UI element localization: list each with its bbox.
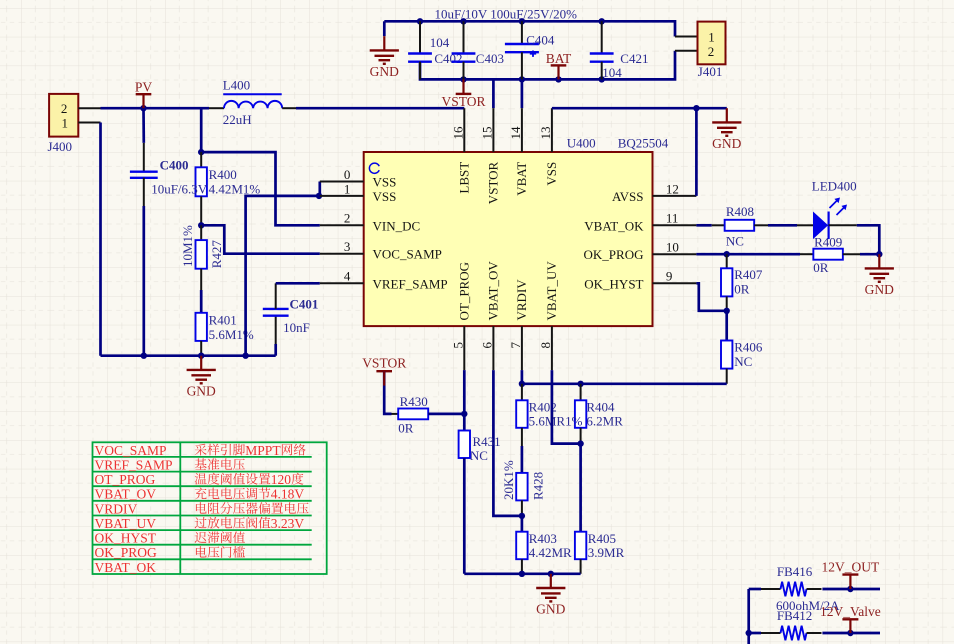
wire pin 5 down	[463, 370, 466, 430]
svg-text:R405: R405	[588, 531, 616, 546]
svg-text:VBAT: VBAT	[514, 162, 529, 196]
svg-text:GND: GND	[865, 282, 894, 297]
wire pin13 VSS to GND junction	[552, 107, 697, 110]
table row description 7	[195, 531, 245, 543]
wire PV rail J400 to L400	[101, 107, 210, 110]
node junction R428/R403	[519, 513, 525, 519]
svg-text:OK_HYST: OK_HYST	[95, 531, 157, 546]
node PV junction	[140, 105, 146, 111]
resistor R405	[575, 532, 586, 574]
pin 5 OT_PROG (bottom)	[451, 262, 472, 370]
svg-text:VBAT_OV: VBAT_OV	[95, 487, 157, 502]
resistor R401	[196, 313, 207, 356]
capacitor C400	[130, 108, 158, 356]
table row description 1	[195, 443, 306, 458]
svg-text:C403: C403	[476, 51, 504, 66]
svg-text:L400: L400	[223, 78, 250, 93]
wire rail to pin 15	[492, 79, 495, 108]
svg-text:GND: GND	[536, 601, 565, 616]
ferrite bead FB412	[781, 626, 807, 641]
svg-text:R408: R408	[726, 204, 754, 219]
svg-text:VSS: VSS	[544, 162, 559, 186]
svg-text:6: 6	[480, 342, 495, 349]
wire R430 to pin5 line	[428, 413, 464, 416]
node junction 12V_Valve	[847, 630, 853, 636]
svg-text:VSS: VSS	[373, 189, 397, 204]
ground symbol bottom-middle	[536, 574, 565, 617]
node junction LED/R409/GND	[876, 251, 882, 257]
power port BAT	[546, 51, 572, 79]
node junction R400 bottom	[198, 222, 204, 228]
svg-text:VSTOR: VSTOR	[362, 356, 406, 371]
wire VSS to ground rail	[246, 196, 320, 356]
svg-text:PV: PV	[135, 79, 153, 94]
svg-text:J400: J400	[48, 139, 73, 154]
svg-text:J401: J401	[698, 64, 723, 79]
LED LED400	[813, 198, 847, 240]
ground symbol top-left	[370, 36, 399, 79]
pin 13 VSS (top)	[538, 108, 559, 185]
wire FB412 right	[807, 632, 881, 634]
svg-text:OT_PROG: OT_PROG	[457, 262, 472, 321]
svg-text:1: 1	[708, 30, 715, 45]
svg-text:LBST: LBST	[457, 162, 472, 194]
pin 14 VBAT (top)	[508, 108, 529, 196]
svg-text:20K1%: 20K1%	[501, 460, 516, 500]
capacitor C401	[263, 283, 320, 355]
svg-text:VSTOR: VSTOR	[441, 94, 485, 109]
svg-text:OT_PROG: OT_PROG	[95, 472, 156, 487]
wire pin 7 down	[521, 370, 524, 384]
node junction VSS	[316, 193, 322, 199]
resistor R403	[516, 516, 527, 574]
connector J401	[698, 22, 726, 65]
svg-text:4.42M1%: 4.42M1%	[209, 181, 261, 196]
resistor R407	[721, 254, 732, 311]
svg-text:13: 13	[538, 127, 553, 140]
svg-text:3.9MR: 3.9MR	[588, 545, 625, 560]
svg-text:5.6M1%: 5.6M1%	[209, 327, 254, 342]
pin 16 LBST (top)	[451, 108, 472, 193]
wire LED cathode to corner	[829, 224, 857, 226]
wire VRDIV horizontal	[522, 382, 726, 385]
svg-text:VREF_SAMP: VREF_SAMP	[373, 276, 448, 291]
wire rail to pin 14	[521, 79, 524, 108]
wire pin 6 VBAT_OV step	[493, 370, 522, 516]
wire VSTOR to R430	[384, 371, 391, 414]
resistor R402	[516, 384, 527, 446]
svg-text:FB416: FB416	[777, 564, 813, 579]
table row description 6	[195, 516, 305, 531]
ground symbol bottom-left	[187, 356, 216, 399]
wire vertical left of FB	[747, 589, 750, 644]
svg-text:C404: C404	[526, 33, 555, 48]
svg-text:1: 1	[344, 181, 351, 196]
svg-text:GND: GND	[712, 136, 741, 151]
svg-text:VBAT_OK: VBAT_OK	[95, 560, 157, 575]
wire bottom rail	[464, 572, 580, 575]
wire junction to GND	[696, 107, 726, 110]
table signal description (green)	[93, 442, 327, 574]
pin 10 OK_PROG (right)	[584, 240, 697, 263]
node junction pin5/R430	[461, 411, 467, 417]
pin 12 AVSS (right)	[612, 181, 696, 204]
node junctions top rail	[417, 18, 423, 24]
svg-text:8: 8	[538, 342, 553, 349]
power port VSTOR left	[362, 356, 406, 372]
svg-text:OK_PROG: OK_PROG	[584, 247, 644, 262]
svg-text:MPPT: MPPT	[245, 443, 281, 458]
svg-text:10uF/10V 100uF/25V/20%: 10uF/10V 100uF/25V/20%	[435, 7, 578, 22]
svg-text:VSTOR: VSTOR	[486, 161, 501, 204]
svg-text:R428: R428	[530, 472, 545, 500]
wire L400 to pin16	[296, 107, 464, 110]
resistor R428	[516, 446, 527, 516]
wire R404 to R405	[579, 444, 582, 532]
svg-text:5: 5	[451, 342, 466, 349]
svg-text:GND: GND	[370, 64, 399, 79]
svg-text:R403: R403	[529, 531, 557, 546]
pin 7 VRDIV (bottom)	[508, 279, 529, 370]
svg-text:2: 2	[344, 211, 351, 226]
svg-text:R406: R406	[734, 340, 763, 355]
svg-text:BQ25504: BQ25504	[618, 136, 669, 151]
pin 8 VBAT_UV (bottom)	[538, 261, 559, 370]
svg-text:0R: 0R	[813, 260, 829, 275]
svg-text:R407: R407	[734, 267, 763, 282]
svg-text:R409: R409	[814, 234, 842, 249]
svg-text:15: 15	[480, 127, 495, 140]
ground GND top-left	[383, 21, 386, 36]
wire FB412 row	[749, 632, 781, 635]
node junctions bottom rail	[460, 76, 466, 82]
pin 11 VBAT_OK (right)	[584, 211, 696, 234]
svg-text:10M1%: 10M1%	[180, 225, 195, 267]
wire top rail	[384, 21, 675, 36]
wire junction down to pin 12 AVSS	[695, 108, 698, 196]
svg-text:12V_OUT: 12V_OUT	[822, 559, 880, 574]
svg-text:2: 2	[61, 101, 68, 116]
svg-text:VBAT_UV: VBAT_UV	[95, 516, 157, 531]
svg-text:4.18V: 4.18V	[271, 487, 305, 502]
svg-text:LED400: LED400	[812, 178, 857, 193]
node junction FB412 left	[746, 630, 752, 636]
svg-text:5.6MR1%: 5.6MR1%	[529, 413, 583, 428]
resistor R400	[196, 152, 207, 225]
svg-text:16: 16	[451, 126, 466, 140]
wire pin 8 VBAT_UV step	[552, 370, 581, 444]
svg-text:C421: C421	[620, 51, 648, 66]
svg-text:VRDIV: VRDIV	[95, 501, 138, 516]
ferrite bead FB416	[781, 582, 807, 597]
J400 pin 1 stub	[78, 122, 100, 124]
svg-text:NC: NC	[726, 233, 744, 248]
table row description 2	[195, 458, 245, 470]
wire FB416 row	[749, 588, 761, 591]
svg-text:3.23V: 3.23V	[271, 516, 305, 531]
svg-text:4: 4	[344, 269, 351, 284]
svg-text:11: 11	[666, 211, 679, 226]
wire top rail to J401 pin1	[675, 36, 698, 38]
svg-text:4.42MR: 4.42MR	[529, 545, 572, 560]
svg-text:0R: 0R	[734, 281, 750, 296]
svg-text:C400: C400	[160, 157, 189, 172]
svg-text:1: 1	[62, 115, 69, 130]
svg-text:VBAT_UV: VBAT_UV	[544, 261, 559, 321]
svg-text:VOC_SAMP: VOC_SAMP	[373, 247, 442, 262]
node junction R404 bottom	[577, 440, 583, 446]
node junctions ground rail	[141, 353, 147, 359]
svg-text:14: 14	[508, 126, 523, 140]
svg-text:VSS: VSS	[373, 175, 397, 190]
svg-text:104: 104	[430, 35, 450, 50]
svg-text:12: 12	[666, 181, 679, 196]
resistor R431	[459, 431, 470, 574]
table row description 3	[195, 472, 304, 487]
power port PV	[135, 79, 153, 108]
wire J400 pin1 down to ground rail	[99, 123, 102, 356]
wire bottom rail to J401 pin2	[675, 50, 698, 52]
ground symbol top-right	[712, 108, 741, 151]
capacitor C403	[452, 21, 476, 79]
pin 6 VBAT_OV (bottom)	[480, 261, 501, 370]
node junction top right	[693, 105, 699, 111]
svg-text:R401: R401	[209, 312, 237, 327]
resistor R404	[575, 384, 586, 444]
svg-text:FB412: FB412	[777, 608, 812, 623]
svg-text:OK_PROG: OK_PROG	[95, 545, 158, 560]
svg-text:R430: R430	[400, 394, 428, 409]
svg-text:C401: C401	[290, 297, 319, 312]
wire R400 top junction from PV rail	[200, 108, 203, 152]
power port 12V_OUT	[822, 559, 880, 589]
svg-text:9: 9	[666, 269, 673, 284]
capacitor C402	[408, 21, 432, 79]
svg-text:10nF: 10nF	[283, 320, 310, 335]
resistor R430	[398, 409, 428, 420]
wire to VIN_DC pin 2 (step)	[201, 152, 320, 225]
wire VSS pins 0/1 step	[318, 182, 321, 196]
pin 3 VOC_SAMP (left)	[320, 239, 442, 262]
svg-text:R404: R404	[586, 400, 615, 415]
power port VSTOR top	[441, 79, 485, 109]
inductor L400	[209, 94, 296, 108]
wire to VOC_SAMP pin 3 (step)	[201, 225, 320, 253]
resistor R408	[725, 220, 755, 231]
node junction R407 top	[724, 251, 730, 257]
node junction R400 top	[198, 149, 204, 155]
svg-text:3: 3	[344, 239, 351, 254]
J400 pin 2 stub	[78, 107, 100, 109]
connector J400	[49, 94, 78, 137]
table row description 8	[196, 546, 245, 558]
capacitor C421	[590, 21, 614, 79]
svg-text:VIN_DC: VIN_DC	[373, 218, 421, 233]
IC origin marker arc	[369, 163, 379, 173]
svg-text:0R: 0R	[398, 421, 414, 436]
svg-text:NC: NC	[470, 448, 488, 463]
svg-text:0: 0	[344, 167, 351, 182]
wire bottom rail	[420, 51, 675, 80]
node junction R407 bottom	[724, 308, 730, 314]
node junction R404 top	[577, 381, 583, 387]
svg-text:10uF/6.3V: 10uF/6.3V	[151, 181, 208, 196]
svg-text:GND: GND	[187, 383, 216, 398]
wire FB416 right	[807, 588, 822, 590]
ground symbol right	[865, 254, 894, 297]
power port 12V_Valve	[820, 604, 881, 633]
svg-text:VREF_SAMP: VREF_SAMP	[95, 457, 173, 472]
svg-text:VBAT_OV: VBAT_OV	[486, 261, 501, 321]
svg-text:U400: U400	[567, 136, 596, 151]
svg-text:12V_Valve: 12V_Valve	[820, 604, 881, 619]
svg-text:22uH: 22uH	[223, 112, 252, 127]
node junction pin7	[519, 381, 525, 387]
svg-text:2: 2	[708, 44, 715, 59]
svg-text:VOC_SAMP: VOC_SAMP	[95, 443, 167, 458]
svg-text:6.2MR: 6.2MR	[586, 413, 623, 428]
svg-text:R427: R427	[209, 240, 224, 269]
svg-text:VRDIV: VRDIV	[514, 279, 529, 321]
wire pin 9 OK_HYST step	[696, 283, 726, 311]
pin 0 VSS (left)	[320, 167, 397, 190]
pin 1 VSS (left)	[320, 181, 397, 204]
wire bottom-left ground rail	[101, 354, 276, 357]
wire pin 10 OK_PROG	[696, 253, 800, 256]
resistor R427	[196, 225, 207, 312]
node junction 12V_OUT	[847, 586, 853, 592]
capacitor C404 polarized	[505, 21, 539, 79]
svg-text:BAT: BAT	[546, 51, 572, 66]
svg-text:120: 120	[271, 472, 292, 487]
svg-text:VBAT_OK: VBAT_OK	[584, 218, 644, 233]
svg-text:7: 7	[508, 342, 523, 349]
table row description 4	[195, 487, 305, 502]
wire R409 to GND junction	[843, 253, 860, 255]
pin 15 VSTOR (top)	[480, 108, 501, 204]
svg-text:R400: R400	[209, 167, 237, 182]
svg-text:AVSS: AVSS	[612, 189, 644, 204]
svg-text:104: 104	[602, 65, 622, 80]
resistor R406	[721, 311, 732, 384]
svg-text:OK_HYST: OK_HYST	[584, 276, 643, 291]
wire R408 to LED	[754, 224, 768, 226]
svg-text:R431: R431	[473, 434, 501, 449]
pin 4 VREF_SAMP (left)	[320, 269, 448, 292]
node junctions bottom rail	[519, 571, 525, 577]
resistor R409	[813, 249, 843, 260]
op-amp U1 : IC U400 BQ25504 body	[364, 152, 653, 326]
pin 9 OK_HYST (right)	[584, 269, 696, 292]
svg-text:10: 10	[666, 240, 679, 255]
wire pin 11 to R408	[696, 224, 711, 227]
svg-text:NC: NC	[734, 354, 752, 369]
pin 2 VIN_DC (left)	[320, 211, 420, 234]
table row description 5	[196, 502, 309, 514]
